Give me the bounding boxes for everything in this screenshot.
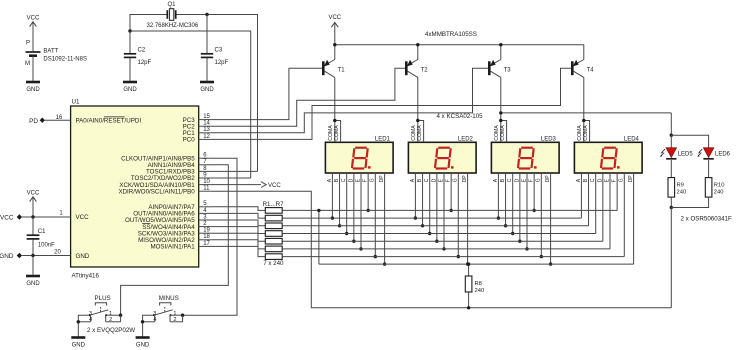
svg-text:PLUS: PLUS: [95, 295, 111, 302]
svg-text:COMA: COMA: [334, 125, 340, 141]
svg-text:BATT: BATT: [43, 48, 58, 54]
wire VCC rail: [335, 44, 584, 46]
svg-text:VCC: VCC: [328, 15, 341, 21]
ground (C2): [123, 82, 137, 93]
wire pin20 GND: [22, 250, 71, 256]
transistor T2: [406, 45, 428, 143]
svg-text:4: 4: [89, 317, 92, 323]
svg-text:GND: GND: [26, 87, 40, 93]
capacitor C1: [27, 217, 56, 256]
wire DP row: [317, 209, 633, 264]
pin labels segments LED3: [493, 175, 551, 183]
wire LED2 segment pins to resistor rows: [414, 173, 470, 266]
svg-text:16: 16: [56, 115, 63, 121]
port VCC (left edge): [0, 214, 22, 221]
wire LED anode net from T3 collector: [499, 111, 709, 148]
wire LED3 segment pins to resistor rows: [497, 173, 553, 266]
svg-text:LED2: LED2: [458, 137, 474, 143]
label 4 x KCSA02-105: [437, 113, 484, 120]
power VCC symbol (battery): [27, 16, 40, 52]
wire pin8 TOSC1: [211, 170, 258, 172]
svg-text:LED4: LED4: [624, 137, 640, 143]
pin label VCC: [76, 214, 90, 221]
svg-text:T4: T4: [587, 67, 595, 73]
seven-segment display LED1: [325, 137, 393, 173]
svg-text:MINUS: MINUS: [159, 295, 179, 302]
capacitor C3: [201, 15, 229, 81]
svg-text:4xMMBTRA105SS: 4xMMBTRA105SS: [425, 31, 477, 38]
svg-text:M: M: [25, 61, 30, 67]
svg-text:12: 12: [203, 134, 210, 140]
resistor R1..R7 bodies: [265, 208, 282, 260]
svg-text:LED5: LED5: [678, 151, 694, 157]
wire PC2 pin14 to T2 base: [211, 68, 407, 126]
wire LED1 segment pins to resistor rows: [331, 173, 387, 266]
node M label: [25, 61, 30, 67]
svg-text:100nF: 100nF: [38, 242, 55, 248]
svg-text:LED1: LED1: [375, 137, 391, 143]
wire crystal top net (Q1 right / C3 / TOSC1 pin8): [176, 15, 258, 172]
ground (battery): [26, 82, 40, 93]
label R1...R7: [263, 201, 285, 208]
svg-text:T2: T2: [421, 67, 429, 73]
junction T3 emitter: [499, 43, 502, 46]
svg-text:11: 11: [203, 186, 210, 192]
wire LED2 COMA bracket: [416, 119, 424, 143]
wire pin7 to PLUS switch: [121, 165, 229, 315]
junction VCC node: [31, 215, 34, 218]
pin labels COMA LED4: [577, 125, 589, 141]
svg-text:P: P: [26, 41, 30, 47]
svg-text:240: 240: [677, 190, 687, 196]
resistor R9: [668, 178, 686, 198]
svg-text:COMA: COMA: [500, 125, 506, 141]
svg-text:GND: GND: [0, 253, 14, 260]
switch PLUS: [77, 295, 113, 337]
svg-text:VCC: VCC: [268, 183, 281, 189]
node P label: [26, 41, 30, 47]
label 7 x 240: [263, 260, 284, 267]
power VCC symbol (transistor rail): [328, 15, 341, 45]
wire PC0 pin12 to T4 base: [211, 68, 573, 139]
svg-text:DS1092-11-N8S: DS1092-11-N8S: [43, 57, 87, 63]
power VCC symbol (pin1): [27, 191, 40, 217]
svg-text:U1: U1: [72, 99, 80, 106]
svg-text:R1...R7: R1...R7: [263, 201, 285, 208]
LED LED6: [697, 148, 730, 159]
svg-text:F: F: [529, 179, 535, 182]
svg-text:LED3: LED3: [541, 137, 557, 143]
LED LED5: [660, 148, 693, 159]
svg-text:Q1: Q1: [167, 2, 176, 8]
svg-text:240: 240: [714, 190, 724, 196]
svg-text:PD: PD: [29, 118, 38, 125]
pin labels segments LED1: [327, 175, 385, 183]
svg-text:MOSI/AIN1/PA1: MOSI/AIN1/PA1: [150, 244, 195, 251]
svg-text:12pF: 12pF: [215, 60, 229, 66]
svg-text:PA0/AIN0/RESET/UPDI: PA0/AIN0/RESET/UPDI: [76, 117, 142, 124]
label 2 x OSR5060341F: [681, 216, 732, 223]
ground (C1/pin20): [26, 276, 40, 287]
svg-text:T1: T1: [338, 67, 346, 73]
ground (PLUS): [71, 338, 85, 349]
svg-text:COMA: COMA: [583, 125, 589, 141]
wire PC1 pin13 to T3 base: [211, 68, 490, 133]
svg-text:13: 13: [203, 127, 210, 133]
svg-text:GND: GND: [136, 343, 150, 349]
svg-text:17: 17: [203, 241, 210, 247]
svg-text:R10: R10: [714, 182, 725, 188]
svg-text:4 x KCSA02-105: 4 x KCSA02-105: [437, 113, 484, 120]
label 2 x EVQQ2P02W: [87, 327, 135, 334]
junction C2 node: [128, 29, 131, 32]
svg-text:19: 19: [203, 228, 210, 234]
svg-text:2 x EVQQ2P02W: 2 x EVQQ2P02W: [87, 327, 135, 334]
svg-text:14: 14: [203, 121, 210, 127]
svg-text:R9: R9: [677, 182, 684, 188]
wire PLUS right contact: [111, 314, 122, 322]
svg-text:VCC: VCC: [27, 16, 40, 22]
pin labels segments LED4: [576, 175, 634, 183]
svg-text:VCC: VCC: [76, 214, 90, 221]
svg-text:18: 18: [203, 234, 210, 240]
svg-text:XDIR/WO0/SCL/AIN11/PB0: XDIR/WO0/SCL/AIN11/PB0: [118, 188, 195, 195]
wire LED6 to R10: [708, 160, 710, 178]
svg-text:C3: C3: [215, 48, 223, 54]
svg-text:15: 15: [203, 114, 210, 120]
svg-text:GND: GND: [72, 343, 86, 349]
svg-text:20: 20: [54, 250, 61, 256]
seven-segment display LED3: [491, 137, 559, 173]
resistor R10: [705, 178, 724, 198]
svg-text:C: C: [590, 178, 596, 182]
wire LED1 COMA bracket: [333, 119, 341, 143]
capacitor C2: [124, 31, 152, 81]
svg-text:32.768KHZ-MC306: 32.768KHZ-MC306: [147, 23, 199, 29]
wire pin9 TOSC2: [211, 177, 251, 179]
svg-text:VCC: VCC: [27, 191, 40, 197]
wire segment rows R1-R7: [282, 210, 624, 256]
svg-text:4: 4: [153, 317, 156, 323]
wire R9/R10 bottoms to rail: [670, 197, 709, 308]
junction T2 emitter: [416, 43, 419, 46]
svg-text:240: 240: [475, 288, 485, 294]
wire pin10 VCC arrow: [211, 182, 281, 190]
seven-segment display LED2: [408, 137, 476, 173]
wire PC3 pin15 to T1 base: [211, 68, 324, 119]
wire MINUS right contact: [176, 314, 185, 322]
svg-text:T3: T3: [504, 67, 512, 73]
pin label PA0/AIN0/RESET/UPDI: [76, 117, 142, 125]
svg-text:C: C: [507, 178, 513, 182]
transistor T4: [572, 45, 594, 143]
ground (MINUS): [136, 338, 150, 349]
svg-text:C1: C1: [38, 229, 46, 235]
svg-text:GND: GND: [200, 87, 214, 93]
resistor R8: [465, 262, 484, 309]
svg-text:GND: GND: [26, 281, 40, 287]
wire battery to gnd: [32, 56, 34, 81]
wire crystal left net (Q1 left / C2 / TOSC2 pin9): [130, 15, 251, 179]
seven-segment display LED4: [574, 137, 642, 173]
wire pin6 to MINUS switch: [183, 158, 237, 315]
label 4xMMBTRA105SS: [425, 31, 477, 38]
port PD: [29, 118, 45, 125]
svg-text:ATtiny416: ATtiny416: [72, 273, 100, 280]
U1 right pin stubs, numbers and labels: [118, 114, 210, 251]
svg-text:LED6: LED6: [715, 151, 731, 157]
wire MCU pins to R1..R7: [211, 207, 265, 257]
svg-text:C2: C2: [138, 48, 146, 54]
svg-text:COMA: COMA: [417, 125, 423, 141]
transistor T1: [323, 45, 345, 143]
wire pin16: [45, 115, 71, 121]
junction GND node: [31, 254, 34, 257]
pin labels COMA LED1: [328, 125, 340, 141]
svg-text:VCC: VCC: [0, 215, 14, 222]
junction C3 node: [205, 13, 208, 16]
svg-text:R8: R8: [475, 281, 482, 287]
svg-text:7 x 240: 7 x 240: [263, 260, 284, 267]
op-amp U1 body (ATtiny416 MCU box): [71, 99, 199, 280]
wire pin1 VCC: [22, 211, 71, 217]
pin label GND: [76, 253, 90, 260]
wire to gnd symbol: [32, 256, 34, 275]
svg-text:10: 10: [203, 179, 210, 185]
wire LED5 to R9: [670, 160, 672, 178]
port GND (left edge): [0, 253, 22, 260]
svg-text:PC0: PC0: [183, 137, 196, 144]
pin labels segments LED2: [410, 175, 468, 183]
svg-text:2 x OSR5060341F: 2 x OSR5060341F: [681, 216, 732, 223]
svg-text:12pF: 12pF: [138, 60, 152, 66]
ground (C3): [200, 82, 214, 93]
wire LED4 COMA bracket: [582, 119, 590, 143]
svg-text:GND: GND: [76, 253, 90, 260]
wire LED4 segment pins to resistor rows: [581, 173, 633, 264]
wire LED3 COMA bracket: [499, 119, 507, 143]
pin labels COMA LED2: [411, 125, 423, 141]
wire pin11 to bottom rail: [211, 191, 671, 308]
pin labels COMA LED3: [494, 125, 506, 141]
svg-text:GND: GND: [123, 87, 137, 93]
svg-text:F: F: [612, 179, 618, 182]
transistor T3: [489, 45, 511, 143]
switch MINUS: [141, 295, 179, 337]
battery BATT: [26, 48, 87, 62]
crystal Q1: [147, 2, 199, 29]
junction T1 emitter: [333, 43, 336, 46]
